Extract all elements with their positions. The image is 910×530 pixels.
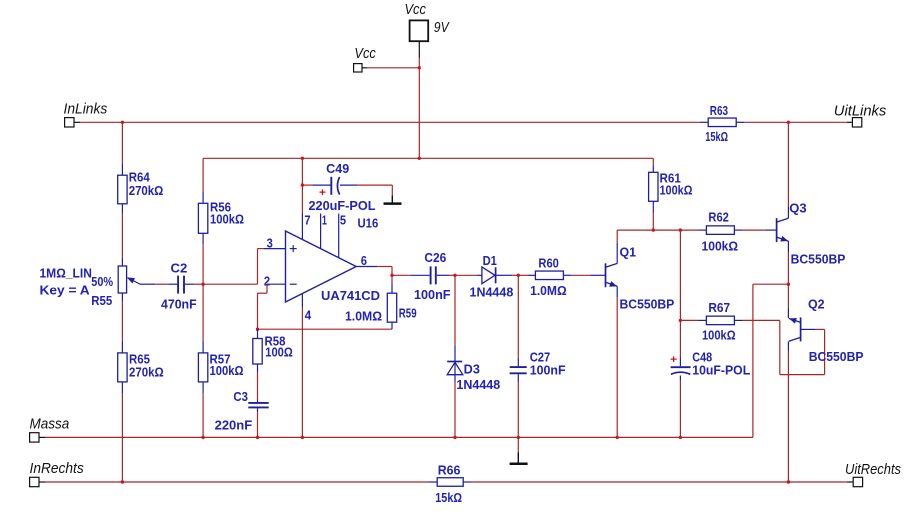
svg-text:UitLinks: UitLinks bbox=[834, 102, 887, 119]
op-amp pin 7 line bbox=[301, 214, 303, 240]
label R62 value 100k bbox=[702, 240, 739, 254]
wire Q2 emitter up bbox=[787, 284, 789, 318]
op-amp pin 4 line bbox=[301, 294, 303, 307]
svg-text:10uF-POL: 10uF-POL bbox=[692, 364, 750, 378]
ground symbol below bus bbox=[510, 452, 528, 464]
junction C27 node bbox=[517, 274, 520, 277]
svg-text:50%: 50% bbox=[91, 275, 113, 289]
wire wiper to C2 bbox=[141, 283, 169, 285]
svg-text:Massa: Massa bbox=[30, 415, 70, 432]
label R58 bbox=[265, 335, 286, 349]
ground symbol at C49 bbox=[384, 195, 402, 203]
wire riser to Q3 emitter node bbox=[753, 283, 789, 285]
transistor Q3 BC550BP bbox=[777, 218, 789, 242]
label terminal InLinks bbox=[64, 101, 108, 118]
op-amp U16 triangle bbox=[286, 231, 357, 302]
label U16 bbox=[358, 217, 379, 231]
svg-text:1.0MΩ: 1.0MΩ bbox=[530, 284, 567, 298]
terminal UitRechts bbox=[847, 477, 863, 486]
diode D1 bbox=[477, 267, 512, 284]
wire supply to C49 node bbox=[301, 158, 303, 185]
svg-text:4: 4 bbox=[305, 308, 312, 322]
svg-text:15kΩ: 15kΩ bbox=[435, 491, 462, 505]
svg-text:C48: C48 bbox=[692, 350, 712, 364]
resistor R59 bbox=[387, 284, 396, 330]
svg-text:100kΩ: 100kΩ bbox=[660, 183, 693, 197]
resistor R66 bbox=[429, 478, 471, 487]
svg-text:100kΩ: 100kΩ bbox=[210, 213, 244, 227]
wire R63 to UitLinks bbox=[744, 121, 847, 123]
label C48 polarity + bbox=[670, 354, 677, 366]
resistor R67 bbox=[680, 316, 742, 325]
label D3 type 1N4448 bbox=[456, 378, 500, 392]
wire InRechts to R66 bbox=[45, 481, 429, 483]
junction R67 column / collector row bbox=[679, 228, 682, 231]
label R67 bbox=[708, 301, 730, 315]
svg-text:15kΩ: 15kΩ bbox=[705, 130, 728, 144]
wire collector row to R67 node bbox=[679, 230, 681, 320]
svg-text:Q3: Q3 bbox=[789, 201, 806, 215]
svg-text:470nF: 470nF bbox=[161, 297, 197, 311]
label R65 value 270k bbox=[129, 365, 164, 379]
label R60 bbox=[538, 257, 559, 271]
capacitor C27 bbox=[510, 358, 527, 382]
wire Q1 base lead bbox=[590, 274, 605, 276]
wire Vcc stub to rail bbox=[367, 67, 419, 69]
wire wrap row bbox=[780, 374, 825, 376]
wire battery lead black bbox=[418, 41, 420, 57]
capacitor C48 bbox=[671, 320, 691, 380]
op-amp minus input mark bbox=[290, 283, 297, 285]
wire output corner bbox=[377, 267, 392, 276]
wire R56 to C2 node bbox=[202, 244, 204, 284]
svg-text:C3: C3 bbox=[233, 390, 248, 404]
junction C3 / ground bus bbox=[256, 436, 259, 439]
svg-text:100kΩ: 100kΩ bbox=[702, 329, 736, 343]
wire riser down bbox=[779, 320, 781, 374]
label R56 bbox=[210, 200, 231, 214]
wire C27 node down bbox=[517, 275, 519, 357]
svg-text:R59: R59 bbox=[399, 306, 417, 320]
label R56 value 100k bbox=[210, 213, 244, 227]
svg-text:Vcc: Vcc bbox=[354, 45, 376, 62]
wire C3 to ground bus bbox=[257, 412, 259, 437]
label R59 value 1.0M bbox=[345, 310, 382, 324]
label terminal InRechts bbox=[30, 460, 85, 477]
svg-text:C26: C26 bbox=[424, 251, 446, 265]
label pin 3 bbox=[267, 237, 273, 251]
wire Q3 collector up bbox=[787, 122, 789, 218]
svg-text:270kΩ: 270kΩ bbox=[129, 365, 164, 379]
wire pin3 riser bbox=[257, 249, 259, 285]
label D1 type 1N4448 bbox=[470, 286, 514, 300]
svg-text:+: + bbox=[319, 187, 326, 199]
svg-text:U16: U16 bbox=[358, 217, 379, 231]
terminal UitLinks bbox=[847, 118, 862, 127]
label R55 type 1M_LIN bbox=[40, 267, 92, 281]
op-amp pin 5 line bbox=[338, 214, 340, 258]
resistor R61 bbox=[649, 165, 658, 213]
wire pin2 stub bbox=[267, 283, 286, 285]
wire InLinks bus bbox=[80, 121, 700, 123]
label R57 bbox=[210, 352, 231, 366]
label R55 setting 50% bbox=[91, 275, 113, 289]
label terminal Massa bbox=[30, 415, 70, 432]
svg-text:C2: C2 bbox=[171, 262, 188, 276]
label C2 bbox=[171, 262, 188, 276]
wire R60 to Q1 base bbox=[571, 274, 590, 276]
label terminal UitRechts bbox=[845, 461, 901, 478]
transistor Q1 BC550BP bbox=[606, 263, 618, 287]
wire Q2 base row bbox=[815, 328, 824, 330]
svg-text:InRechts: InRechts bbox=[30, 460, 85, 477]
label pin 4 bbox=[305, 308, 312, 322]
label C49 value 220uF-POL bbox=[309, 199, 376, 213]
svg-text:R65: R65 bbox=[129, 352, 150, 366]
wire C27 to ground bus bbox=[517, 382, 519, 437]
junction C49 / pin7 node bbox=[301, 183, 304, 186]
junction Q2 collector / UitRechts row bbox=[787, 480, 790, 483]
svg-text:220uF-POL: 220uF-POL bbox=[309, 199, 376, 213]
label U16 type UA741CD bbox=[321, 289, 380, 303]
label C26 value 100nF bbox=[414, 288, 451, 302]
svg-text:1.0MΩ: 1.0MΩ bbox=[345, 310, 382, 324]
svg-text:UitRechts: UitRechts bbox=[845, 461, 901, 478]
svg-text:+: + bbox=[670, 354, 677, 366]
label R58 value 100 bbox=[265, 346, 293, 360]
wire R67 to riser bbox=[743, 319, 780, 321]
label C3 value 220nF bbox=[215, 418, 253, 432]
op-amp plus input mark bbox=[290, 245, 297, 252]
wire R58 to C3 bbox=[257, 372, 259, 400]
svg-text:R60: R60 bbox=[538, 257, 559, 271]
resistor R56 bbox=[198, 192, 207, 245]
wire supply row to R56 bbox=[202, 158, 204, 191]
wire Q1 emitter down bbox=[616, 286, 618, 437]
label terminal UitLinks bbox=[834, 102, 887, 119]
label R57 value 100k bbox=[210, 364, 244, 378]
svg-text:1: 1 bbox=[322, 213, 327, 227]
label R60 value 1.0M bbox=[530, 284, 567, 298]
wire D3 to ground bus bbox=[454, 382, 456, 438]
label C48 value 10uF-POL bbox=[692, 364, 750, 378]
label Q2 bbox=[808, 298, 825, 312]
label battery value 9V bbox=[434, 19, 451, 36]
junction output node bbox=[390, 274, 393, 277]
wire R66 to UitRechts bbox=[471, 481, 847, 483]
svg-text:3: 3 bbox=[267, 237, 273, 251]
wire pin3 stub bbox=[258, 248, 286, 250]
capacitor C2 bbox=[168, 276, 194, 294]
wire Q1 collector up bbox=[616, 230, 618, 263]
potentiometer R55 bbox=[118, 258, 126, 302]
wire D3 node to D1 bbox=[455, 274, 477, 276]
svg-text:InLinks: InLinks bbox=[64, 101, 108, 118]
wire D3 node down bbox=[454, 275, 456, 345]
capacitor C49 bbox=[302, 177, 357, 195]
svg-text:BC550BP: BC550BP bbox=[620, 298, 675, 312]
junction R57 / ground bus bbox=[201, 436, 204, 439]
svg-text:100nF: 100nF bbox=[414, 288, 451, 302]
svg-text:R55: R55 bbox=[91, 294, 112, 308]
label R64 value 270k bbox=[129, 184, 164, 198]
wire supply row to R61 bbox=[652, 158, 654, 165]
svg-text:100kΩ: 100kΩ bbox=[210, 364, 244, 378]
wire pin2 to feedback node bbox=[257, 293, 259, 329]
wire C2 to node bbox=[194, 283, 203, 285]
label D3 bbox=[464, 363, 480, 377]
wire R62 to Q3 base bbox=[743, 229, 765, 231]
svg-text:R62: R62 bbox=[708, 211, 729, 225]
svg-text:R63: R63 bbox=[710, 104, 728, 118]
junction Q3 emitter node bbox=[787, 283, 790, 286]
svg-text:100nF: 100nF bbox=[530, 363, 566, 377]
label C2 value 470nF bbox=[161, 297, 197, 311]
label C49 polarity + bbox=[319, 187, 326, 199]
svg-text:Vcc: Vcc bbox=[405, 1, 427, 18]
wire pin7 drop bbox=[301, 185, 303, 213]
op-amp pin 6 output stub bbox=[356, 266, 377, 268]
wire Q3 base lead bbox=[765, 229, 777, 231]
label Q2 type BC550BP bbox=[809, 350, 864, 364]
svg-text:D3: D3 bbox=[464, 363, 480, 377]
wire battery lead red bbox=[418, 58, 420, 68]
junction D3 node bbox=[453, 274, 456, 277]
svg-text:C27: C27 bbox=[530, 350, 551, 364]
svg-text:BC550BP: BC550BP bbox=[791, 253, 846, 267]
label R67 value 100k bbox=[702, 329, 736, 343]
terminal InLinks bbox=[65, 118, 81, 127]
wire pin 4 to ground bus bbox=[301, 307, 303, 438]
svg-text:5: 5 bbox=[340, 213, 346, 227]
wire R65 to InRechts row bbox=[121, 394, 123, 482]
transistor Q2 BC550BP mirrored bbox=[789, 317, 801, 341]
label battery Vcc bbox=[405, 1, 427, 18]
label R62 bbox=[708, 211, 729, 225]
wire supply row bbox=[203, 157, 653, 159]
wire R64 to R55 bbox=[121, 213, 123, 258]
terminal Massa bbox=[30, 433, 46, 442]
op-amp pin 1 line bbox=[320, 214, 322, 249]
battery V1 Vcc 9V bbox=[410, 20, 429, 41]
junction C2 output node bbox=[201, 283, 204, 286]
wire R55 to R65 bbox=[121, 301, 123, 341]
junction C48 / ground bus bbox=[679, 436, 682, 439]
label R61 bbox=[660, 171, 681, 185]
junction R61 / collector row bbox=[652, 228, 655, 231]
junction Vcc stub / battery bbox=[418, 66, 421, 69]
svg-text:1N4448: 1N4448 bbox=[456, 378, 500, 392]
capacitor C3 bbox=[248, 400, 268, 413]
label pin 5 bbox=[340, 213, 346, 227]
label R55 key bbox=[40, 284, 90, 298]
label C26 bbox=[424, 251, 446, 265]
wire ground bus to ground symbol bbox=[517, 437, 519, 452]
label C27 bbox=[530, 350, 551, 364]
label R59 bbox=[399, 306, 417, 320]
junction D3 / ground bus bbox=[453, 436, 456, 439]
resistor R62 bbox=[680, 226, 742, 235]
terminal InRechts bbox=[30, 477, 46, 486]
label D1 bbox=[483, 254, 497, 268]
wire R57 to ground bus bbox=[202, 394, 204, 438]
label R66 value 15k bbox=[435, 491, 462, 505]
wire ground bus bbox=[45, 436, 753, 438]
label pin 7 bbox=[304, 213, 310, 227]
svg-text:270kΩ: 270kΩ bbox=[129, 184, 164, 198]
wire Q1 collector row bbox=[617, 229, 680, 231]
wire C2 node to R57 bbox=[202, 284, 204, 341]
wire Q2 base riser bbox=[824, 329, 826, 374]
wire output node to C26 bbox=[392, 274, 410, 276]
junction Q1 emitter / ground bus bbox=[616, 436, 619, 439]
label Q3 type BC550BP bbox=[791, 253, 846, 267]
wire InLinks to R64 bbox=[121, 122, 123, 163]
svg-text:R66: R66 bbox=[438, 463, 461, 477]
wire C26 to D3 node bbox=[449, 274, 455, 276]
junction InLinks / R64 column bbox=[121, 121, 124, 124]
wire C2 node to pin3 riser bbox=[203, 283, 257, 285]
resistor R58 bbox=[253, 329, 262, 372]
label pin 2 bbox=[264, 274, 270, 288]
label C27 value 100nF bbox=[530, 363, 566, 377]
svg-text:6: 6 bbox=[361, 254, 367, 268]
label R64 bbox=[129, 170, 150, 184]
label R55 bbox=[91, 294, 112, 308]
svg-text:Q1: Q1 bbox=[620, 246, 637, 260]
svg-text:9V: 9V bbox=[434, 19, 451, 36]
wire feedback row bbox=[258, 328, 393, 330]
label C49 bbox=[326, 162, 349, 176]
svg-text:C49: C49 bbox=[326, 162, 349, 176]
svg-text:220nF: 220nF bbox=[215, 418, 253, 432]
junction Vcc rail / supply row bbox=[418, 157, 421, 160]
label R63 value 15k bbox=[705, 130, 728, 144]
wire output to R59 bbox=[391, 275, 393, 283]
label pin 6 bbox=[361, 254, 367, 268]
resistor R57 bbox=[198, 341, 207, 394]
junction feedback / R58 node bbox=[256, 328, 259, 331]
resistor R65 bbox=[118, 341, 127, 394]
terminal Vcc stub bbox=[354, 64, 368, 72]
capacitor C26 bbox=[410, 266, 449, 284]
svg-text:Q2: Q2 bbox=[808, 298, 825, 312]
resistor R60 bbox=[528, 271, 571, 280]
junction InRechts / divider column bbox=[121, 480, 124, 483]
svg-text:7: 7 bbox=[304, 213, 310, 227]
wire R61 to collector row bbox=[652, 213, 654, 230]
svg-text:R64: R64 bbox=[129, 170, 150, 184]
label terminal Vcc bbox=[354, 45, 376, 62]
wire Vcc vertical rail bbox=[418, 68, 420, 159]
wire ground bus riser bbox=[752, 284, 754, 437]
svg-text:BC550BP: BC550BP bbox=[809, 350, 864, 364]
junction C27 / ground bus bbox=[517, 436, 520, 439]
wire C48 to ground bus bbox=[679, 381, 681, 438]
wire Q2 base lead bbox=[801, 328, 816, 330]
potentiometer R55 wiper arrow bbox=[127, 277, 141, 284]
svg-text:Key = A: Key = A bbox=[40, 284, 90, 298]
diode D3 bbox=[447, 345, 463, 381]
svg-text:1MΩ_LIN: 1MΩ_LIN bbox=[40, 267, 92, 281]
label Q1 type BC550BP bbox=[620, 298, 675, 312]
label R65 bbox=[129, 352, 150, 366]
junction supply row / C49 column bbox=[301, 157, 304, 160]
label R66 bbox=[438, 463, 461, 477]
junction pin4 / ground bus bbox=[301, 436, 304, 439]
label C48 bbox=[692, 350, 712, 364]
svg-text:R67: R67 bbox=[708, 301, 730, 315]
junction UitLinks / Q3 collector column bbox=[787, 121, 790, 124]
wire Q2 collector down bbox=[787, 341, 789, 482]
wire pin2 jog across bbox=[258, 292, 268, 294]
label R63 bbox=[710, 104, 728, 118]
wire D1 to C27 node bbox=[512, 274, 528, 276]
wire Q3 emitter down bbox=[787, 241, 789, 284]
label Q3 bbox=[789, 201, 806, 215]
label pin 1 bbox=[322, 213, 327, 227]
svg-text:1N4448: 1N4448 bbox=[470, 286, 514, 300]
svg-text:UA741CD: UA741CD bbox=[321, 289, 380, 303]
label Q1 bbox=[620, 246, 637, 260]
junction R67 node bbox=[679, 319, 682, 322]
resistor R63 bbox=[700, 118, 745, 127]
wire pin2 jog down bbox=[266, 284, 268, 293]
label R61 value 100k bbox=[660, 183, 693, 197]
resistor R64 bbox=[118, 163, 127, 213]
svg-text:100kΩ: 100kΩ bbox=[702, 240, 739, 254]
wire C49 to ground bbox=[357, 185, 392, 195]
svg-text:D1: D1 bbox=[483, 254, 497, 268]
svg-text:100Ω: 100Ω bbox=[265, 346, 293, 360]
label C3 bbox=[233, 390, 248, 404]
